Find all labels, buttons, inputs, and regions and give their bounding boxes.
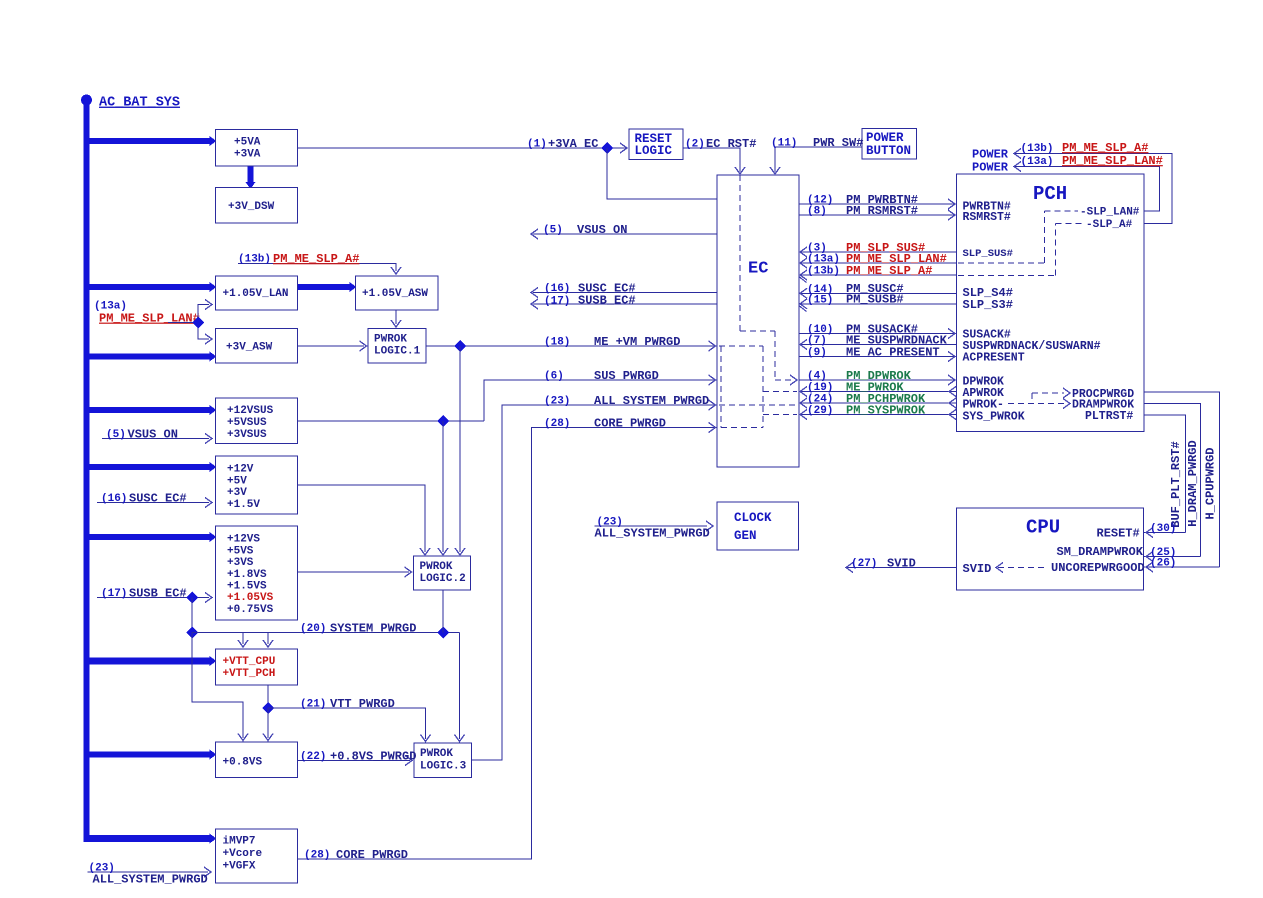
svg-text:ME +VM PWRGD: ME +VM PWRGD xyxy=(594,335,680,349)
wire (10) PM_SUSACK# EC to PCH xyxy=(799,322,957,338)
wire (13b) PM_ME_SLP_A# PCH SLP_A# to POWER xyxy=(972,141,1172,223)
svg-text:-SLP_LAN#: -SLP_LAN# xyxy=(1080,207,1140,219)
svg-text:PM_ME_SLP_LAN#: PM_ME_SLP_LAN# xyxy=(1062,154,1163,168)
regulator box +VTT_CPU/+VTT_PCH xyxy=(216,649,298,685)
svg-text:SVID: SVID xyxy=(963,562,992,576)
svg-text:(5): (5) xyxy=(106,429,126,441)
regulator box +3V_ASW xyxy=(216,329,298,364)
svg-text:(13b): (13b) xyxy=(238,254,271,266)
regulator box iMVP7/+Vcore/+VGFX xyxy=(216,829,298,883)
wire (29) PM_SYSPWROK EC to PCH xyxy=(799,403,957,419)
svg-text:LOGIC: LOGIC xyxy=(635,144,673,158)
wire (16) SUSC_EC# into +12V box xyxy=(97,491,212,507)
wire (25) SM_DRAMPWROK into CPU xyxy=(1144,547,1201,561)
svg-text:SYS_PWROK: SYS_PWROK xyxy=(963,410,1025,423)
regulator box +1.05V_ASW xyxy=(356,276,439,310)
wire DRAMPWROK to H_DRAM_PWRGD net xyxy=(1144,404,1201,557)
svg-text:(21): (21) xyxy=(300,699,326,711)
wire (5) VSUS_ON into +12VSUS box xyxy=(102,427,212,443)
wire (17) SUSB_EC# into +12VS box xyxy=(97,586,212,602)
svg-text:ACPRESENT: ACPRESENT xyxy=(963,351,1025,364)
svg-text:(4): (4) xyxy=(807,371,827,383)
svg-text:ALL SYSTEM PWRGD: ALL SYSTEM PWRGD xyxy=(594,394,709,408)
wire SUSB junction down to SYSTEM_PWRGD rail xyxy=(191,598,193,633)
wire dashed inside EC from top entries xyxy=(740,175,797,385)
svg-text:(27): (27) xyxy=(851,558,877,570)
pin ACPRESENT on PCH xyxy=(963,351,1025,364)
svg-text:(16): (16) xyxy=(544,283,570,295)
svg-text:SUS_PWRGD: SUS_PWRGD xyxy=(594,369,659,383)
wire bus branch to +12VSUS xyxy=(84,405,217,415)
svg-text:SLP_SUS#: SLP_SUS# xyxy=(963,248,1013,260)
net label BUF_PLT_RST# xyxy=(1169,441,1183,527)
node junction diamond on SYSTEM_PWRGD left xyxy=(186,627,198,639)
wire (16) SUSC_EC# out of EC xyxy=(531,281,717,297)
regulator box +12V/+5V/+3V/+1.5V xyxy=(216,456,298,514)
wire bus branch to +0.8VS xyxy=(84,750,217,760)
svg-text:PM_RSMRST#: PM_RSMRST# xyxy=(846,204,918,218)
logic box PWROK LOGIC.1 xyxy=(368,329,426,364)
svg-text:H_DRAM_PWRGD: H_DRAM_PWRGD xyxy=(1186,440,1200,526)
pin SLP_SUS# on PCH xyxy=(963,248,1013,260)
svg-text:(17): (17) xyxy=(101,588,127,600)
wire (17) SUSB_EC# out of EC xyxy=(531,294,717,309)
svg-text:(16): (16) xyxy=(101,493,127,505)
svg-text:+12VSUS: +12VSUS xyxy=(227,405,274,417)
node junction diamond PM_ME_SLP_LAN# xyxy=(192,317,204,329)
pin UNCOREPWRGOOD on CPU xyxy=(1051,561,1145,575)
svg-text:+1.05VS: +1.05VS xyxy=(227,592,274,604)
svg-text:+1.5V: +1.5V xyxy=(227,499,260,511)
pin SLP_LAN# on PCH xyxy=(1080,207,1140,219)
wire (13a) PM_ME_SLP_LAN# PCH to EC xyxy=(799,252,957,268)
wire (13a) PM_ME_SLP_LAN# label to LAN/ASW rails xyxy=(94,300,212,345)
svg-text:+VGFX: +VGFX xyxy=(223,861,256,873)
pin SYS_PWROK on PCH xyxy=(963,410,1025,423)
wire +12VSUS to junction and (6) riser xyxy=(298,420,485,422)
wire stub diagonal below (13b) at EC edge xyxy=(800,277,807,283)
svg-text:(24): (24) xyxy=(807,394,833,406)
svg-text:CORE PWRGD: CORE PWRGD xyxy=(594,416,666,430)
svg-text:+3VA EC: +3VA EC xyxy=(548,137,598,151)
svg-text:POWER: POWER xyxy=(972,161,1009,175)
wire diamond down to PWROK LOGIC.2 top (mid) xyxy=(438,421,448,555)
wire bus branch to +12V xyxy=(84,462,217,472)
net label AC_BAT_SYS xyxy=(99,96,180,111)
svg-text:+1.8VS: +1.8VS xyxy=(227,569,267,581)
pin PWRBTN# on PCH xyxy=(963,200,1011,213)
wire (6) SUS_PWRGD riser to EC xyxy=(484,369,717,421)
svg-text:CORE PWRGD: CORE PWRGD xyxy=(336,848,408,862)
svg-text:(23): (23) xyxy=(544,396,570,408)
wire (12) PM_PWRBTN# EC to PCH xyxy=(799,193,957,209)
svg-text:PM_SUSB#: PM_SUSB# xyxy=(846,293,904,307)
IC box CPU xyxy=(957,508,1144,590)
wire PROCPWRGD to H_CPUPWRGD net xyxy=(1144,392,1220,567)
wire SYSTEM_PWRGD branch into +VTT top (right) xyxy=(263,633,273,648)
wire (23) ALL_SYSTEM_PWRGD into CLOCK GEN xyxy=(595,517,714,541)
wire (18) ME +VM PWRGD PWROK LOGIC.1 to EC xyxy=(426,335,717,351)
wire VTT junction down into +0.8VS top xyxy=(263,708,273,741)
svg-text:(30): (30) xyxy=(1150,523,1176,535)
svg-text:(13b): (13b) xyxy=(1021,143,1054,155)
svg-text:SM_DRAMPWROK: SM_DRAMPWROK xyxy=(1057,545,1144,559)
wire (26) UNCOREPWRGOOD into CPU xyxy=(1144,558,1220,572)
box POWER BUTTON xyxy=(862,129,917,160)
wire SYSTEM_PWRGD down to PWROK LOGIC.3 top xyxy=(455,633,465,742)
svg-text:(18): (18) xyxy=(544,337,570,349)
svg-text:+3VA: +3VA xyxy=(234,149,261,161)
svg-text:ALL_SYSTEM_PWRGD: ALL_SYSTEM_PWRGD xyxy=(595,527,710,541)
box RESET LOGIC xyxy=(629,129,683,160)
wire (13b) PM_ME_SLP_A# label to +1.05V_ASW xyxy=(238,252,401,274)
svg-text:(2): (2) xyxy=(685,139,705,151)
pin APWROK on PCH xyxy=(963,387,1005,400)
wire (28) CORE PWRGD from iMVP7 to EC xyxy=(298,416,718,862)
node AC_BAT_SYS junction dot xyxy=(81,95,92,106)
wire +VTT bottom to VTT_PWRGD junction xyxy=(267,685,269,708)
wire (23) ALL SYSTEM PWRGD from PWROK LOGIC.3 to EC xyxy=(472,394,718,760)
svg-text:-SLP_A#: -SLP_A# xyxy=(1086,219,1133,231)
svg-text:(6): (6) xyxy=(544,371,564,383)
svg-text:SUSB_EC#: SUSB_EC# xyxy=(578,294,636,308)
svg-text:iMVP7: iMVP7 xyxy=(223,836,256,848)
svg-text:PLTRST#: PLTRST# xyxy=(1085,410,1133,423)
svg-text:+3V: +3V xyxy=(227,487,247,499)
svg-text:BUF_PLT_RST#: BUF_PLT_RST# xyxy=(1169,441,1183,527)
svg-text:PM_ME_SLP_A#: PM_ME_SLP_A# xyxy=(846,264,932,278)
wire (22) +0.8VS_PWRGD to PWROK LOGIC.3 xyxy=(298,749,417,765)
svg-text:+0.8VS_PWRGD: +0.8VS_PWRGD xyxy=(330,749,416,763)
svg-text:PWR SW#: PWR SW# xyxy=(813,136,863,150)
svg-text:VTT_PWRGD: VTT_PWRGD xyxy=(330,697,395,711)
wire thick link +1.05V_LAN to +1.05V_ASW xyxy=(298,282,357,292)
svg-text:+VTT_PCH: +VTT_PCH xyxy=(223,668,276,680)
node junction diamond on +12VSUS output xyxy=(437,415,449,427)
wire AC_BAT_SYS main vertical bus xyxy=(84,100,90,842)
svg-text:UNCOREPWRGOOD: UNCOREPWRGOOD xyxy=(1051,561,1145,575)
svg-text:+1.05V_ASW: +1.05V_ASW xyxy=(362,288,428,300)
svg-text:CPU: CPU xyxy=(1026,517,1060,539)
node junction diamond on SYSTEM_PWRGD right xyxy=(437,627,449,639)
wire (5) VSUS_ON out of EC (upper) xyxy=(531,223,717,239)
svg-text:PM_SYSPWROK: PM_SYSPWROK xyxy=(846,403,926,417)
wire thick link +5VA to +3V_DSW xyxy=(246,165,256,189)
svg-text:PWROK: PWROK xyxy=(420,748,453,760)
svg-text:(11): (11) xyxy=(771,138,797,150)
svg-text:(15): (15) xyxy=(807,295,833,307)
svg-text:SUSC_EC#: SUSC_EC# xyxy=(129,491,187,505)
svg-text:PWROK: PWROK xyxy=(420,561,453,573)
box CLOCK GEN xyxy=(717,502,799,550)
pin SM_DRAMPWROK on CPU xyxy=(1057,545,1144,559)
wire (8) PM_RSMRST# EC to PCH xyxy=(799,204,957,220)
svg-text:+5V: +5V xyxy=(227,475,247,487)
svg-text:AC_BAT_SYS: AC_BAT_SYS xyxy=(99,96,180,111)
svg-text:(8): (8) xyxy=(807,206,827,218)
wire PWROK LOGIC.2 down to SYSTEM_PWRGD xyxy=(442,590,444,633)
svg-text:+5VSUS: +5VSUS xyxy=(227,417,267,429)
svg-text:+0.8VS: +0.8VS xyxy=(223,757,263,769)
node junction diamond on VTT_PWRGD xyxy=(262,702,274,714)
wire SYSTEM_PWRGD branch into +VTT top (left) xyxy=(238,633,248,648)
svg-text:(28): (28) xyxy=(304,850,330,862)
svg-text:(13a): (13a) xyxy=(1021,156,1054,168)
pin SLP_A# on PCH xyxy=(1086,219,1133,231)
wire (23) ALL_SYSTEM_PWRGD into iMVP7 xyxy=(88,863,212,887)
svg-text:(22): (22) xyxy=(300,751,326,763)
svg-text:+5VA: +5VA xyxy=(234,137,261,149)
svg-text:+3VS: +3VS xyxy=(227,557,254,569)
wire (2) EC RST# from RESET LOGIC to EC top xyxy=(683,137,756,174)
svg-text:(19): (19) xyxy=(807,382,833,394)
wire bus branch to +1.05V_LAN xyxy=(84,282,217,292)
svg-text:+12VS: +12VS xyxy=(227,534,260,546)
pin PLTRST# on PCH xyxy=(1085,410,1133,423)
svg-text:(13b): (13b) xyxy=(807,266,840,278)
svg-text:EC RST#: EC RST# xyxy=(706,137,756,151)
wire dashed PWROK to PROCPWRGD/DRAMPWROK inside PCH xyxy=(1008,393,1064,404)
svg-text:ME AC PRESENT: ME AC PRESENT xyxy=(846,345,940,359)
wire (9) ME_AC_PRESENT EC to PCH xyxy=(799,345,957,361)
pin SLP_S4# on PCH xyxy=(963,286,1013,300)
wire +3V_ASW to PWROK LOGIC.1 xyxy=(298,341,367,351)
wire diamond down to PWROK LOGIC.2 top xyxy=(455,346,465,555)
wire bus bottom branch to iMVP7 xyxy=(84,834,217,844)
IC box PCH xyxy=(957,174,1145,432)
svg-text:ALL_SYSTEM_PWRGD: ALL_SYSTEM_PWRGD xyxy=(93,873,208,887)
net label H_CPUPWRGD xyxy=(1204,447,1218,519)
pin SUSACK# on PCH xyxy=(963,328,1011,341)
svg-text:H_CPUPWRGD: H_CPUPWRGD xyxy=(1204,447,1218,519)
wire (13b) PM_ME_SLP_A# PCH to EC xyxy=(799,264,957,280)
wire +12V rail to PWROK LOGIC.2 top xyxy=(298,485,431,555)
wire (4) PM_DPWROK EC to PCH xyxy=(799,369,957,385)
wire dashed SVID to UNCOREPWRGOOD inside CPU xyxy=(996,563,1048,573)
wire dashed inside EC (23) passthrough xyxy=(719,404,797,406)
svg-text:+1.05V_LAN: +1.05V_LAN xyxy=(223,288,289,300)
wire (24) PM_PCHPWROK EC to PCH xyxy=(799,392,957,408)
svg-text:RESET#: RESET# xyxy=(1097,527,1140,541)
wire (30) RESET# into CPU xyxy=(1144,523,1186,537)
svg-text:(13a): (13a) xyxy=(807,254,840,266)
wire (21) VTT_PWRGD to PWROK LOGIC.3 xyxy=(268,697,431,742)
regulator box +5VA/+3VA xyxy=(216,130,298,167)
svg-text:SUSB_EC#: SUSB_EC# xyxy=(129,586,187,600)
regulator box +0.8VS xyxy=(216,742,298,778)
wire PLTRST# to BUF_PLT_RST# net xyxy=(1144,415,1186,533)
node junction diamond on ME +VM PWRGD xyxy=(454,340,466,352)
svg-text:PWROK: PWROK xyxy=(374,334,407,346)
svg-text:POWER: POWER xyxy=(972,148,1009,162)
svg-text:+VTT_CPU: +VTT_CPU xyxy=(223,656,276,668)
wire bus branch to +3V_ASW xyxy=(84,352,217,362)
wire dashed SLP_SUS# to SLP_LAN# inside PCH xyxy=(958,211,1078,263)
wire (19) ME_PWROK PCH to EC xyxy=(799,380,957,396)
svg-text:PCH: PCH xyxy=(1033,183,1067,205)
wire +12VS rail to PWROK LOGIC.2 left xyxy=(298,567,412,577)
svg-text:VSUS_ON: VSUS_ON xyxy=(577,223,627,237)
svg-text:CLOCK: CLOCK xyxy=(734,511,772,525)
svg-text:PM_ME_SLP_A#: PM_ME_SLP_A# xyxy=(273,252,359,266)
svg-text:+12V: +12V xyxy=(227,464,254,476)
wire (3) PM_SLP_SUS# PCH to EC xyxy=(799,241,957,257)
wire (27) SVID out of CPU xyxy=(846,556,957,572)
pin SUSPWRDNACK/SUSWARN# on PCH xyxy=(963,340,1101,353)
svg-text:PM_ME_SLP_LAN#: PM_ME_SLP_LAN# xyxy=(99,312,200,326)
svg-text:(9): (9) xyxy=(807,347,827,359)
svg-text:VSUS_ON: VSUS_ON xyxy=(128,427,178,441)
svg-text:+5VS: +5VS xyxy=(227,545,254,557)
wire (7) ME_SUSPWRDNACK PCH to EC xyxy=(799,333,957,349)
svg-text:(20): (20) xyxy=(300,623,326,635)
logic box PWROK LOGIC.3 xyxy=(414,743,472,778)
wire bus branch to +5VA xyxy=(84,136,217,146)
wire +3VA EC branch down into EC left edge xyxy=(607,148,717,199)
regulator box +3V_DSW xyxy=(216,188,298,224)
svg-text:(26): (26) xyxy=(1150,558,1176,570)
net label H_DRAM_PWRGD xyxy=(1186,440,1200,526)
svg-text:SVID: SVID xyxy=(887,556,916,570)
wire (14) PM_SUSC# PCH to EC xyxy=(799,282,957,298)
node junction diamond on SUSB_EC# xyxy=(186,592,198,604)
IC box EC xyxy=(717,175,799,467)
wire left chain down to +0.8VS xyxy=(192,633,248,741)
wire (1) +3VA EC from +5VA to RESET LOGIC xyxy=(298,137,628,153)
svg-text:+1.5VS: +1.5VS xyxy=(227,581,267,593)
wire bus branch to +VTT xyxy=(84,656,217,666)
svg-text:+Vcore: +Vcore xyxy=(223,848,263,860)
wire (20) SYSTEM_PWRGD rail xyxy=(192,621,460,635)
svg-text:POWER: POWER xyxy=(866,131,904,145)
svg-text:BUTTON: BUTTON xyxy=(866,144,911,158)
svg-text:GEN: GEN xyxy=(734,529,757,543)
wire (15) PM_SUSB# PCH to EC xyxy=(799,293,957,309)
svg-text:RSMRST#: RSMRST# xyxy=(963,211,1011,224)
pin PWROK on PCH xyxy=(963,398,1004,411)
svg-text:SYSTEM_PWRGD: SYSTEM_PWRGD xyxy=(330,621,416,635)
regulator box +12VS..+0.75VS xyxy=(216,526,298,620)
svg-text:(28): (28) xyxy=(544,418,570,430)
wire dashed to SLP_A# inside PCH xyxy=(958,223,1084,275)
svg-text:+3V_ASW: +3V_ASW xyxy=(226,342,273,354)
pin DPWROK on PCH xyxy=(963,375,1005,388)
regulator box +1.05V_LAN xyxy=(216,276,298,310)
svg-text:EC: EC xyxy=(748,259,768,278)
wire bus branch to +12VS xyxy=(84,532,217,542)
svg-text:LOGIC.3: LOGIC.3 xyxy=(420,761,467,773)
node junction diamond on +3VA EC xyxy=(601,142,613,154)
wire stub diagonal below (15) at EC edge xyxy=(800,306,807,312)
svg-text:+0.75VS: +0.75VS xyxy=(227,604,274,616)
svg-text:SLP_S3#: SLP_S3# xyxy=(963,298,1013,312)
pin RESET# on CPU xyxy=(1097,527,1140,541)
wire dashed inside EC (18) to outputs xyxy=(719,346,797,428)
svg-text:(5): (5) xyxy=(543,225,563,237)
svg-text:+3V_DSW: +3V_DSW xyxy=(228,201,275,213)
svg-text:PM_ME_SLP_A#: PM_ME_SLP_A# xyxy=(1062,141,1148,155)
svg-text:(7): (7) xyxy=(807,335,827,347)
regulator box +12VSUS/+5VSUS/+3VSUS xyxy=(216,398,298,444)
svg-text:LOGIC.1: LOGIC.1 xyxy=(374,346,421,358)
wire +1.05V_ASW down to PWROK LOGIC.1 xyxy=(391,310,401,327)
pin RSMRST# on PCH xyxy=(963,211,1011,224)
wire (11) PWR SW# from POWER BUTTON to EC top xyxy=(770,136,863,174)
pin SLP_S3# on PCH xyxy=(963,298,1013,312)
svg-text:(1): (1) xyxy=(527,139,547,151)
pin PROCPWRGD on PCH xyxy=(1063,388,1134,401)
svg-text:LOGIC.2: LOGIC.2 xyxy=(420,573,466,585)
svg-text:(29): (29) xyxy=(807,405,833,417)
pin SVID on CPU xyxy=(963,562,992,576)
logic box PWROK LOGIC.2 xyxy=(414,556,471,590)
pin DRAMPWROK on PCH xyxy=(1063,398,1134,411)
svg-text:+3VSUS: +3VSUS xyxy=(227,429,267,441)
wire (13a) PM_ME_SLP_LAN# PCH SLP_LAN# to POWER xyxy=(972,154,1163,211)
svg-text:(17): (17) xyxy=(544,296,570,308)
